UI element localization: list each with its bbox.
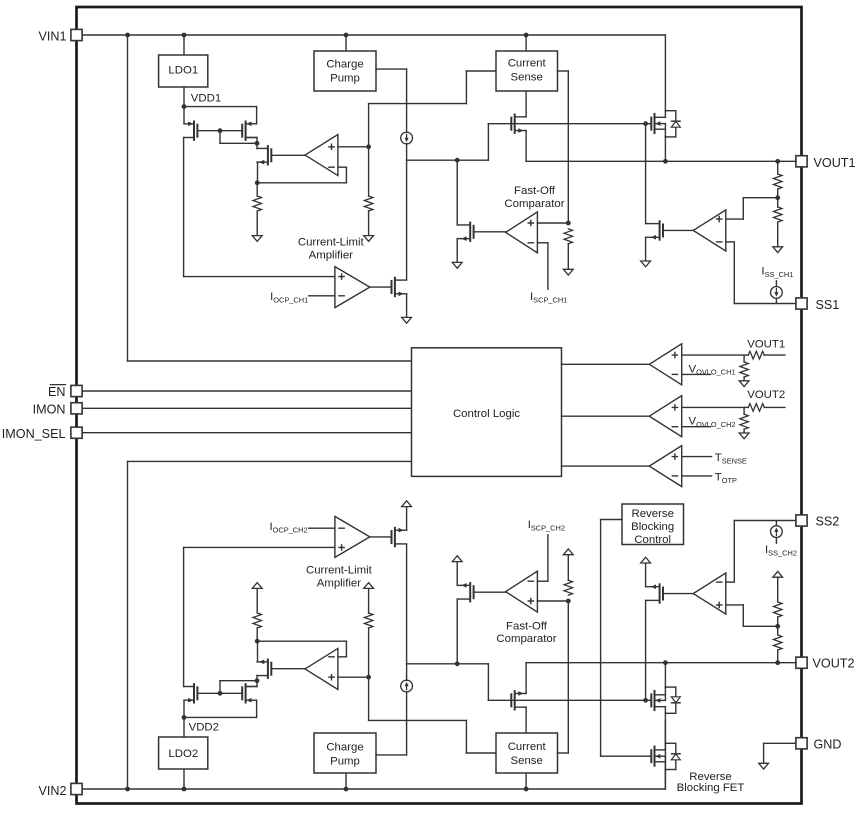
svg-text:Current: Current: [508, 741, 547, 753]
wire A3 gate lead (CH2 mirrored): [663, 593, 693, 595]
wire Q4 source to ground (CH2 mirrored): [406, 507, 408, 531]
wire Q6 source down (CH1): [645, 237, 647, 261]
node VIN1 rail junctions (CH1): [125, 33, 528, 38]
wire R to VOUT1 stub: [744, 354, 785, 356]
pin VIN2 (CH2 mirrored): [71, 783, 82, 794]
transistor Qrb reverse blocking with diode: [651, 743, 680, 769]
ground divider (CH1): [773, 247, 783, 253]
svg-text:Comparator: Comparator: [496, 633, 556, 645]
svg-text:VIN2: VIN2: [39, 784, 67, 798]
svg-text:Control Logic: Control Logic: [453, 408, 520, 420]
block LDO1 (CH1): [159, 55, 208, 87]
resistor R1 (CH1): [253, 196, 261, 211]
resistor R4 (CH2 mirrored): [774, 602, 782, 617]
pin VIN1 (CH1): [71, 29, 82, 40]
wire gate line (CH2 mirrored): [488, 699, 651, 701]
resistor R5 (CH1): [564, 229, 572, 244]
wire current sense out stub (CH2 mirrored): [558, 601, 569, 753]
svg-text:Blocking FET: Blocking FET: [677, 782, 745, 794]
wire fastoff minus ISCP (CH1): [537, 243, 548, 289]
transistor M2 mirror right (CH2 mirrored): [242, 684, 256, 702]
op-amp A2 current limit (CH1): [335, 267, 370, 308]
wire R to VOUT2 stub: [744, 406, 785, 408]
ground Q5 (CH1): [452, 262, 462, 268]
svg-text:Sense: Sense: [511, 72, 543, 84]
svg-text:VIN1: VIN1: [39, 30, 67, 44]
ground C1 divider: [739, 381, 749, 387]
ground Q6 (CH2 mirrored): [641, 557, 651, 563]
wire csrc to gate drive (CH2 mirrored): [406, 664, 408, 681]
resistor VOUT1 horizontal: [748, 351, 764, 359]
op-amp A3 soft start (CH1): [693, 210, 726, 251]
comparator fast-off CH2 (CH2 mirrored): [506, 571, 538, 612]
node divider top (CH1): [775, 159, 780, 164]
ground divider (CH2 mirrored): [773, 571, 783, 577]
wire divider R3 top (CH2 mirrored): [777, 650, 779, 663]
ground C2 divider: [739, 433, 749, 439]
wire LDO1 input (CH1): [183, 35, 185, 55]
op-amp A3 soft start (CH2 mirrored): [693, 573, 726, 614]
op-amp A1 (CH1): [305, 135, 338, 176]
wire C2 minus: [682, 426, 711, 428]
wire current sense input (CH2 mirrored): [525, 773, 527, 789]
wire R4 to ground (CH2 mirrored): [777, 577, 779, 602]
node A1 plus (CH1): [366, 144, 371, 149]
wire TSENSE: [682, 456, 712, 458]
pin IMON: [71, 403, 82, 414]
transistor Q4 pulldown (CH1): [392, 278, 407, 296]
transistor Q5 fastoff pulldown (CH2 mirrored): [457, 583, 473, 601]
wire csrc to Q4 drain (CH2 mirrored): [406, 544, 408, 663]
ground Q4 (CH1): [402, 317, 412, 323]
svg-text:Charge: Charge: [326, 59, 363, 71]
wire to resistor R2 (CH2 mirrored): [368, 628, 370, 677]
resistor R3 (CH1): [774, 174, 782, 189]
wire charge pump input (CH1): [345, 35, 347, 51]
wire sense tap (CH2 mirrored): [369, 677, 496, 753]
wire comparator out to Q5 gate (CH1): [474, 231, 506, 233]
wire csrc to gate drive (CH1): [406, 144, 408, 161]
svg-text:Current: Current: [508, 58, 547, 70]
transistor Qsense (CH1): [511, 115, 526, 133]
wire Qpower source to VOUT1 (CH1): [664, 137, 666, 161]
wire to ground C1: [743, 377, 745, 381]
svg-text:VOVLO_CH1: VOVLO_CH1: [689, 363, 736, 376]
wire to CL amp plus (CH2 mirrored): [184, 546, 335, 548]
ground R2 (CH1): [364, 236, 374, 242]
svg-text:Comparator: Comparator: [504, 198, 564, 210]
node Q3 source (CH2 mirrored): [255, 639, 260, 644]
comparator thermal: [649, 446, 681, 487]
ground Q4 (CH2 mirrored): [402, 501, 412, 507]
wire Q6 source down (CH2 mirrored): [645, 563, 647, 587]
wire to ground C2: [743, 429, 745, 433]
resistor OVLO CH2: [740, 414, 748, 429]
block Control Logic: [412, 348, 562, 477]
svg-text:Amplifier: Amplifier: [309, 249, 354, 261]
svg-text:IMON_SEL: IMON_SEL: [2, 427, 66, 441]
node divider mid (CH1): [775, 195, 780, 200]
wire IOCP input (CH1): [309, 295, 335, 297]
EN overline: [51, 384, 66, 386]
wire control to C3: [562, 465, 650, 467]
svg-text:SS2: SS2: [816, 514, 840, 528]
node divider mid (CH2 mirrored): [775, 624, 780, 629]
svg-text:ISCP_CH1: ISCP_CH1: [530, 291, 567, 304]
wire Q6 drain up (CH1): [645, 124, 647, 224]
node gate pulldown tap (CH2 mirrored): [643, 698, 648, 703]
wire R2 to ground (CH2 mirrored): [368, 588, 370, 613]
transistor M1 mirror left (CH2 mirrored): [184, 684, 197, 702]
transistor Q5 fastoff pulldown (CH1): [457, 223, 473, 241]
wire Qrb source to VIN2 rail: [664, 770, 666, 790]
ground GND pin: [759, 763, 769, 769]
wire csrc to Q4 drain (CH1): [406, 160, 408, 279]
wire divider to A3 plus (CH2 mirrored): [726, 605, 778, 626]
wire Q5 source down (CH1): [456, 239, 458, 263]
node fastoff tap (CH2 mirrored): [455, 661, 460, 666]
wire VOUT2 line (CH2 mirrored): [526, 662, 796, 664]
current source ISS_CH1 (CH1): [771, 287, 783, 299]
comparator OVLO CH2: [649, 396, 681, 437]
block Charge Pump CH1 (CH1): [314, 51, 376, 91]
wire gate line (CH1): [488, 123, 651, 125]
node VIN2 rail junctions (CH2 mirrored): [125, 787, 528, 792]
wire R1 top (CH1): [256, 183, 258, 196]
transistor Qsense (CH2 mirrored): [511, 691, 526, 709]
wire divider R3 top (CH1): [777, 161, 779, 174]
wire ISS to SS1 (CH1): [775, 298, 777, 303]
wire Q3 gate (CH2 mirrored): [271, 668, 305, 670]
ground R5 (CH1): [563, 269, 573, 275]
wire Q3 gate (CH1): [271, 154, 305, 156]
resistor R1 (CH2 mirrored): [253, 613, 261, 628]
wire Qsense drain to box (CH1): [525, 91, 527, 117]
svg-text:SS1: SS1: [816, 298, 840, 312]
wire charge pump input (CH2 mirrored): [345, 773, 347, 789]
resistor R4 (CH1): [774, 207, 782, 222]
transistor Q6 gate control (CH1): [646, 221, 663, 239]
wire C1 plus to divider: [682, 354, 744, 356]
wire gate to drain (CH1): [220, 131, 257, 144]
node VDD2 (CH2 mirrored): [182, 715, 187, 720]
wire LDO1 output VDD1 (CH1): [183, 87, 185, 124]
wire sense tap (CH1): [369, 71, 496, 147]
wire C1 vert resistor: [743, 355, 745, 362]
svg-text:VDD1: VDD1: [191, 92, 221, 104]
ground R2 (CH2 mirrored): [364, 583, 374, 589]
ground R1 (CH1): [252, 236, 262, 242]
svg-text:ISCP_CH2: ISCP_CH2: [528, 519, 565, 532]
wire R1 to ground (CH2 mirrored): [256, 588, 258, 613]
wire R2 to ground (CH1): [368, 211, 370, 236]
wire A2 out to Q4 gate (CH1): [370, 286, 392, 288]
svg-text:ISS_CH2: ISS_CH2: [765, 544, 797, 557]
resistor VOUT2 horizontal: [748, 404, 764, 412]
svg-text:TSENSE: TSENSE: [715, 452, 747, 465]
svg-text:VOUT1: VOUT1: [747, 338, 785, 350]
wire M1 drain down (CH2 mirrored): [183, 547, 185, 686]
transistor M2 mirror right (CH1): [242, 121, 256, 139]
wire M2 drain (CH1): [246, 138, 257, 149]
ground Q5 (CH2 mirrored): [452, 556, 462, 562]
transistor Q3 buffer (CH1): [257, 146, 271, 164]
wire VDD2 rail (CH2 mirrored): [184, 700, 257, 717]
wire LDO2 input (CH2 mirrored): [183, 769, 185, 789]
transistor Q4 pulldown (CH2 mirrored): [392, 528, 407, 546]
wire fastoff minus ISCP (CH2 mirrored): [537, 535, 548, 582]
wire Qsense source to VOUT1 (CH1): [525, 131, 527, 162]
wire charge pump output (CH2 mirrored): [376, 692, 407, 755]
svg-text:EN: EN: [48, 385, 66, 399]
op-amp A2 current limit (CH2 mirrored): [335, 516, 370, 557]
wire fastoff plus (CH1): [537, 222, 568, 224]
amplifier input signs: [329, 144, 722, 680]
transistor Qpower with body diode (CH2 mirrored): [651, 687, 680, 713]
svg-text:VOVLO_CH2: VOVLO_CH2: [689, 416, 736, 429]
wire Q3 source down (CH2 mirrored): [257, 641, 259, 662]
wire VDD1 rail (CH1): [184, 107, 257, 124]
node fastoff tap (CH1): [455, 158, 460, 163]
svg-text:Fast-Off: Fast-Off: [506, 620, 548, 632]
wire Qsense drain to box (CH2 mirrored): [525, 707, 527, 733]
transistor M1 mirror left (CH1): [184, 121, 197, 139]
pin EN: [71, 385, 82, 396]
node A1 plus (CH2 mirrored): [366, 675, 371, 680]
wire SS2 line (CH2 mirrored): [734, 520, 796, 522]
wire VIN2 to control logic: [128, 461, 412, 789]
wire fastoff plus (CH2 mirrored): [537, 600, 568, 602]
block Charge Pump CH2 (CH2 mirrored): [314, 733, 376, 773]
svg-text:VDD2: VDD2: [189, 722, 219, 734]
svg-text:Sense: Sense: [511, 755, 543, 767]
wire M2 drain (CH2 mirrored): [246, 676, 257, 687]
pin SS2 (CH2 mirrored): [796, 515, 807, 526]
wire IMON_SEL: [82, 432, 411, 434]
transistor Q3 buffer (CH2 mirrored): [257, 660, 271, 678]
resistor R2 (CH1): [364, 196, 372, 211]
svg-text:TOTP: TOTP: [715, 472, 737, 485]
svg-text:Control: Control: [634, 534, 671, 546]
wire Qpower source to VOUT2 (CH2 mirrored): [664, 663, 666, 687]
pin GND: [796, 738, 807, 749]
wire IMON: [82, 407, 411, 409]
wire ISS stub top (CH1): [775, 281, 777, 287]
ground R1 (CH2 mirrored): [252, 583, 262, 589]
wire gate drive run (CH1): [407, 124, 489, 161]
wire Qsense source to VOUT2 (CH2 mirrored): [525, 663, 527, 694]
transistor Q6 gate control (CH2 mirrored): [646, 584, 663, 602]
node fastoff plus (CH1): [566, 221, 571, 226]
wire VIN1 rail (CH1): [82, 34, 665, 36]
wire current sense input (CH1): [525, 35, 527, 51]
node Q3 source (CH1): [255, 180, 260, 185]
wire to CL amp plus (CH1): [184, 276, 335, 278]
wire R4 to ground (CH1): [777, 222, 779, 247]
block Current Sense CH2 (CH2 mirrored): [496, 733, 558, 773]
svg-text:IOCP_CH1: IOCP_CH1: [270, 291, 308, 304]
wire Qrb drain up: [664, 720, 666, 743]
op-amp A1 (CH2 mirrored): [305, 648, 338, 689]
wire R3 to node (CH1): [777, 189, 779, 207]
wire Q5 source down (CH2 mirrored): [456, 562, 458, 586]
current source ISS_CH2 (CH2 mirrored): [771, 526, 783, 538]
svg-text:VOUT2: VOUT2: [813, 657, 855, 671]
resistor R3 (CH2 mirrored): [774, 635, 782, 650]
node mirror gates (CH1): [218, 128, 223, 133]
wire R1 to ground (CH1): [256, 211, 258, 236]
svg-text:ISS_CH1: ISS_CH1: [761, 265, 793, 278]
wire charge pump output (CH1): [376, 69, 407, 132]
wire Qpower drain to rail (CH1): [664, 35, 666, 111]
wire to resistor R2 (CH1): [368, 147, 370, 196]
node power fet source (CH1): [663, 159, 668, 164]
wire C2 plus to divider: [682, 406, 744, 408]
wire A3 gate lead (CH1): [663, 229, 693, 231]
svg-text:Pump: Pump: [330, 756, 360, 768]
svg-text:GND: GND: [814, 737, 842, 751]
wire Q3 source down (CH1): [257, 162, 259, 183]
wire GND lead: [764, 743, 796, 763]
wire A3 minus feedback (CH1): [726, 242, 735, 304]
block Reverse Blocking Control: [622, 504, 684, 545]
svg-text:Fast-Off: Fast-Off: [514, 185, 556, 197]
svg-text:Blocking: Blocking: [631, 521, 674, 533]
node fastoff plus (CH2 mirrored): [566, 599, 571, 604]
wire R5 to ground (CH1): [567, 244, 569, 269]
node gate pulldown tap (CH1): [643, 121, 648, 126]
wire R5 to ground (CH2 mirrored): [567, 555, 569, 581]
svg-text:Current-Limit: Current-Limit: [298, 236, 365, 248]
svg-text:VOUT1: VOUT1: [814, 156, 856, 170]
wire comparator out to Q5 gate (CH2 mirrored): [474, 591, 506, 593]
svg-text:Pump: Pump: [330, 73, 360, 85]
block Current Sense CH1 (CH1): [496, 51, 558, 91]
wire A2 out to Q4 gate (CH2 mirrored): [370, 536, 392, 538]
ground R5 (CH2 mirrored): [563, 549, 573, 555]
wire VOUT1 line (CH1): [526, 160, 796, 162]
resistor OVLO CH1: [740, 362, 748, 377]
wire control to C1: [562, 363, 650, 365]
svg-text:IMON: IMON: [33, 402, 66, 416]
wire Qpower drain to rail (CH2 mirrored): [664, 713, 666, 789]
wire Q5 drain up (CH1): [456, 160, 458, 225]
wire Q6 drain up (CH2 mirrored): [645, 600, 647, 700]
wire LDO2 output VDD2 (CH2 mirrored): [183, 700, 185, 737]
wire VIN1 to control logic: [128, 35, 412, 361]
svg-text:IOCP_CH2: IOCP_CH2: [270, 521, 308, 534]
node power fet source (CH2 mirrored): [663, 660, 668, 665]
svg-text:LDO1: LDO1: [168, 65, 198, 77]
wire current sense out stub (CH1): [558, 71, 569, 223]
svg-text:VOUT2: VOUT2: [747, 389, 785, 401]
wire ISS stub top (CH2 mirrored): [775, 538, 777, 544]
wire R3 to node (CH2 mirrored): [777, 617, 779, 635]
node M2 drain (CH2 mirrored): [255, 678, 260, 683]
pin SS1 (CH1): [796, 298, 807, 309]
svg-text:Amplifier: Amplifier: [317, 577, 362, 589]
wire R1 top (CH2 mirrored): [256, 628, 258, 641]
wire A1 plus input (CH1): [338, 146, 369, 148]
pin VOUT1 (CH1): [796, 156, 807, 167]
wire VIN2 rail (CH2 mirrored): [82, 788, 665, 790]
wire Q4 source to ground (CH1): [406, 294, 408, 318]
block LDO2 (CH2 mirrored): [159, 737, 208, 769]
current source charge pump (CH2 mirrored): [401, 680, 413, 692]
wire gate tie (CH1): [198, 130, 243, 132]
comparator OVLO CH1: [649, 344, 681, 385]
wire SS1 line (CH1): [734, 303, 796, 305]
resistor R2 (CH2 mirrored): [364, 613, 372, 628]
pin IMON_SEL: [71, 427, 82, 438]
wire divider to A3 plus (CH1): [726, 198, 778, 219]
wire IOCP input (CH2 mirrored): [309, 527, 335, 529]
pin VOUT2 (CH2 mirrored): [796, 657, 807, 668]
wire control to C2: [562, 415, 650, 417]
transistor Qpower with body diode (CH1): [651, 111, 680, 137]
wire A3 minus feedback (CH2 mirrored): [726, 521, 735, 583]
node divider top (CH2 mirrored): [775, 660, 780, 665]
svg-text:LDO2: LDO2: [168, 748, 198, 760]
comparator fast-off CH1 (CH1): [506, 212, 538, 253]
wire A1 plus input (CH2 mirrored): [338, 676, 369, 678]
node mirror gates (CH2 mirrored): [218, 691, 223, 696]
wire feedback to minus (CH1): [257, 167, 346, 183]
wire RBC to gate: [601, 520, 652, 757]
resistor R5 (CH2 mirrored): [564, 580, 572, 595]
node M2 drain (CH1): [255, 141, 260, 146]
svg-text:Charge: Charge: [326, 741, 363, 753]
wire ISS to SS2 (CH2 mirrored): [775, 521, 777, 526]
wire C2 vert resistor: [743, 407, 745, 414]
node VDD1 (CH1): [182, 104, 187, 109]
wire feedback to minus (CH2 mirrored): [257, 641, 346, 657]
wire M1 drain down (CH1): [183, 138, 185, 277]
wire TOTP: [682, 475, 712, 477]
wire EN: [82, 390, 411, 392]
wire Q5 drain up (CH2 mirrored): [456, 599, 458, 664]
wire gate drive run (CH2 mirrored): [407, 664, 489, 701]
ground Q6 (CH1): [641, 261, 651, 267]
wire C1 minus: [682, 373, 711, 375]
wire gate tie (CH2 mirrored): [198, 692, 243, 694]
wire gate to drain (CH2 mirrored): [220, 681, 257, 694]
svg-text:Reverse: Reverse: [631, 508, 673, 520]
current source charge pump (CH1): [401, 132, 413, 144]
svg-text:Current-Limit: Current-Limit: [306, 565, 373, 577]
